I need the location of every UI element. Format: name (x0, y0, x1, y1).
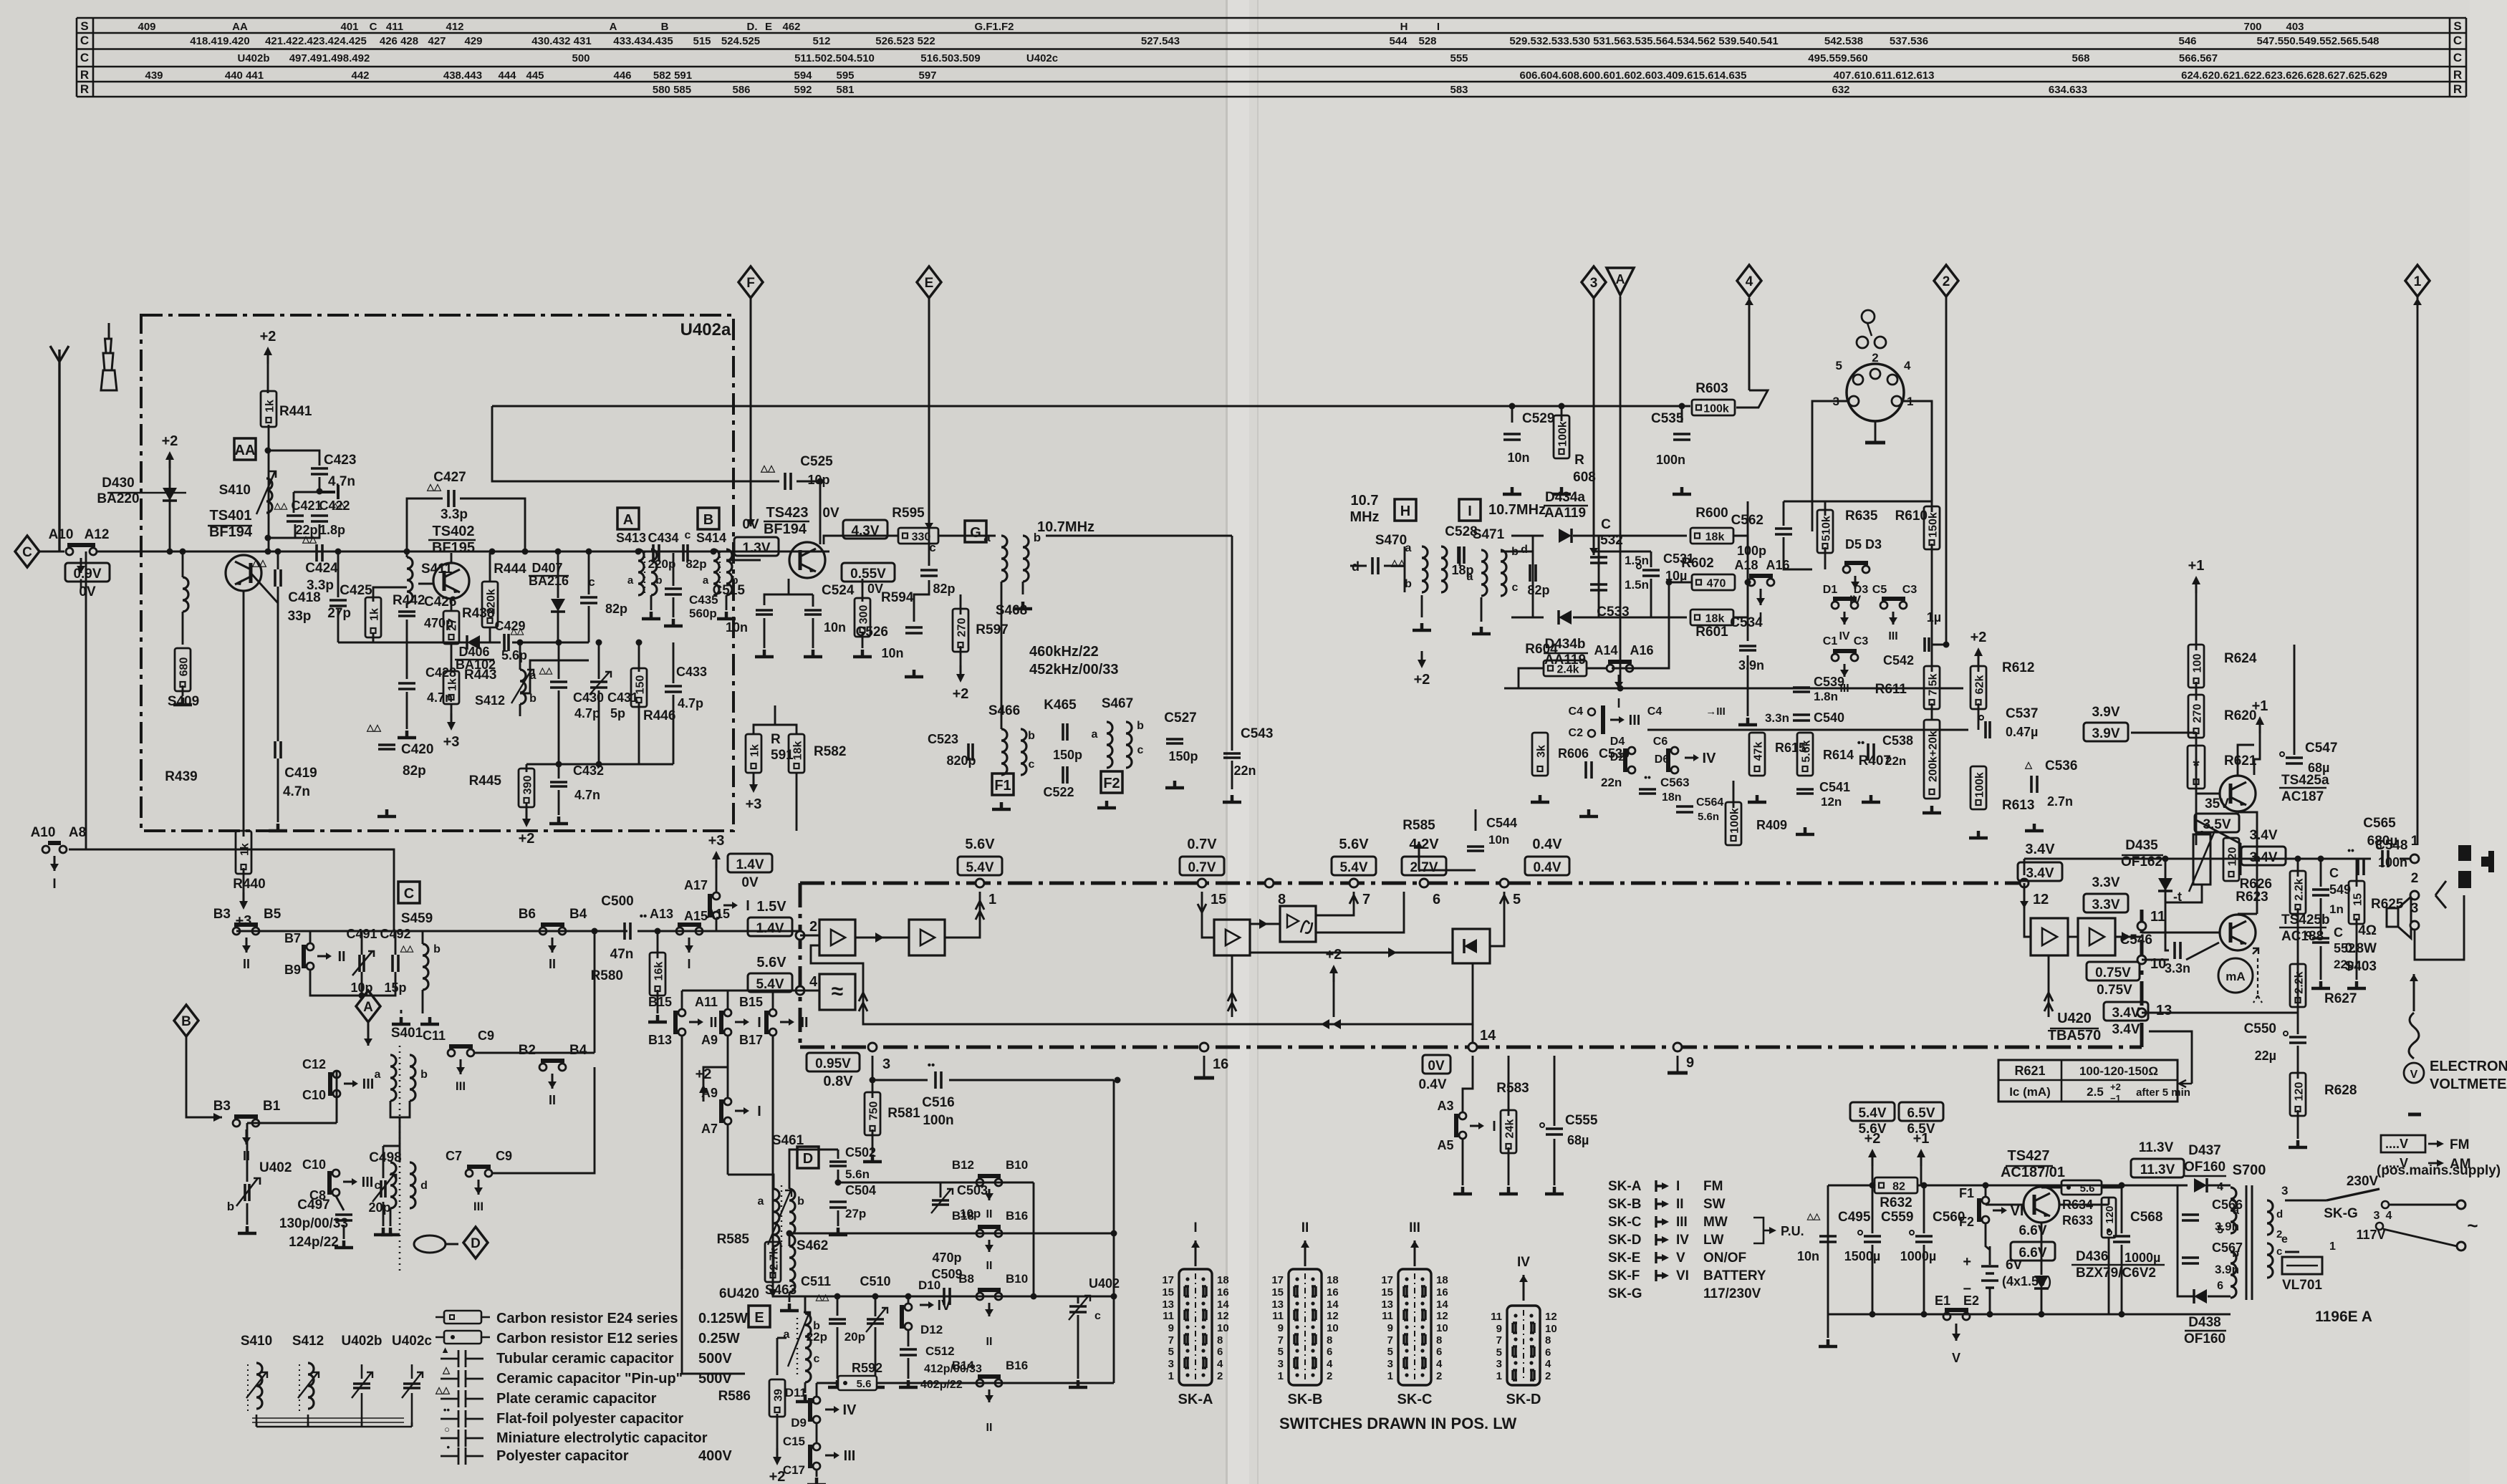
resistor R580 16k boxed (650, 953, 665, 996)
svg-text:14: 14 (1327, 1298, 1339, 1311)
contact D6/C6 (1671, 747, 1678, 754)
svg-text:524.525: 524.525 (721, 35, 760, 47)
wire R602 to R604 row (1612, 582, 1692, 668)
svg-text:R583: R583 (1496, 1081, 1529, 1096)
svg-text:3.3n: 3.3n (2165, 961, 2190, 975)
svg-text:4: 4 (2217, 1181, 2223, 1193)
svg-text:II: II (986, 1260, 993, 1272)
svg-text:R614: R614 (1823, 748, 1854, 762)
svg-text:c: c (1512, 582, 1519, 594)
IC pin 15 (1198, 879, 1206, 887)
svg-text:16: 16 (1436, 1286, 1448, 1298)
svg-text:C538: C538 (1882, 733, 1913, 748)
svg-text:560p: 560p (689, 607, 717, 620)
wire TS401 base to divider (251, 573, 278, 603)
SK-G mains switch (2285, 1200, 2326, 1202)
svg-text:C9: C9 (496, 1149, 512, 1163)
diode D434b AA119 (1559, 610, 1572, 625)
capacitor C428 4.7n (398, 683, 415, 689)
resistor R603 100k boxed (1692, 400, 1735, 415)
svg-text:G.F1.F2: G.F1.F2 (974, 21, 1014, 33)
svg-text:VL701: VL701 (2282, 1278, 2322, 1293)
svg-text:544: 544 (1389, 35, 1408, 47)
wire R625 top (2356, 859, 2358, 887)
svg-text:439: 439 (145, 69, 163, 82)
contact A10/A8 lower (59, 846, 67, 853)
svg-text:C3: C3 (1854, 635, 1869, 647)
ground S414 (717, 612, 736, 619)
svg-text:624.620.621.622.623.626.628.62: 624.620.621.622.623.626.628.627.625.629 (2181, 69, 2387, 82)
svg-text:A18: A18 (1734, 558, 1758, 572)
svg-text:S462: S462 (797, 1238, 828, 1253)
svg-text:C504: C504 (845, 1183, 876, 1198)
svg-text:24k: 24k (1504, 1119, 1516, 1139)
telescopic antenna symbol (101, 323, 117, 390)
capacitor C565 680u (2382, 850, 2388, 867)
switch block SK-B (1289, 1269, 1322, 1385)
marker diamond 1 (2405, 265, 2430, 297)
svg-text:S: S (2453, 19, 2461, 33)
svg-text:C: C (80, 51, 89, 64)
svg-text:6: 6 (1433, 892, 1440, 907)
ground C504 (829, 1228, 847, 1235)
svg-text:B15: B15 (739, 995, 763, 1009)
svg-text:c: c (1029, 758, 1035, 771)
contact D10/D12 (905, 1304, 912, 1311)
svg-text:586: 586 (732, 84, 750, 96)
svg-text:D406: D406 (458, 645, 489, 659)
svg-text:632: 632 (1832, 84, 1849, 96)
svg-text:D438: D438 (2188, 1315, 2220, 1330)
svg-text:SK-C: SK-C (1397, 1392, 1433, 1407)
capacitor C535 100n (1673, 434, 1690, 440)
capacitor C429 5.6p (480, 642, 501, 644)
wire R612 top (1978, 653, 1980, 672)
transistor TS402 BF195 (433, 563, 469, 599)
wire line y=961 discriminator (1504, 688, 1963, 690)
svg-text:II: II (986, 1208, 993, 1220)
IF transformer S468 (G) (965, 521, 986, 542)
svg-text:C12: C12 (302, 1057, 326, 1071)
svg-text:82p: 82p (685, 557, 706, 571)
svg-text:1196E A: 1196E A (2315, 1309, 2372, 1325)
resistor R628 120 boxed (2290, 1073, 2306, 1116)
svg-text:C495: C495 (1838, 1210, 1871, 1225)
svg-text:4.7n: 4.7n (328, 474, 355, 489)
svg-text:C537: C537 (2006, 706, 2038, 721)
svg-text:9: 9 (1496, 1323, 1502, 1335)
svg-text:1k: 1k (447, 678, 459, 691)
capacitor C431 5p variable (590, 682, 607, 688)
svg-text:+2: +2 (1326, 947, 1342, 963)
svg-text:0.55V: 0.55V (850, 567, 886, 582)
svg-text:7: 7 (1362, 892, 1370, 907)
svg-text:0.4V: 0.4V (1418, 1077, 1446, 1092)
capacitor C525 10p (785, 473, 791, 490)
svg-text:A10: A10 (31, 825, 56, 840)
svg-text:C547: C547 (2305, 741, 2337, 756)
svg-text:R581: R581 (887, 1106, 920, 1121)
svg-text:0V: 0V (79, 584, 96, 599)
IC pin 11 (2137, 922, 2146, 930)
svg-text:11: 11 (1272, 1310, 1284, 1322)
IC pin 14 (1468, 1043, 1477, 1051)
svg-text:11: 11 (2150, 909, 2165, 925)
capacitor 82p at S471 (1530, 564, 1536, 582)
svg-text:542.538: 542.538 (1824, 35, 1863, 47)
wire R623 top (2196, 820, 2241, 875)
svg-text:330: 330 (912, 531, 931, 544)
svg-text:100k: 100k (1974, 772, 1986, 798)
svg-text:3.3V: 3.3V (2092, 875, 2119, 890)
svg-text:47k: 47k (1753, 742, 1765, 761)
svg-text:U420: U420 (2057, 1011, 2092, 1026)
wire S468 to S466 (1001, 582, 1003, 729)
resistors R615 47k / R614 5.6k (1749, 733, 1765, 776)
wire TS402 collector (451, 553, 453, 563)
wire D434b to R601 (1573, 617, 1687, 619)
svg-text:495.559.560: 495.559.560 (1808, 52, 1867, 64)
svg-text:8: 8 (1327, 1334, 1332, 1346)
svg-text:100-120-150Ω: 100-120-150Ω (2079, 1064, 2158, 1078)
svg-text:IV: IV (1517, 1255, 1530, 1270)
wire B4 junction up to AM line (594, 931, 596, 1053)
wire AGC to pin14 (1472, 1024, 1474, 1043)
svg-text:22n: 22n (1885, 754, 1906, 768)
svg-text:K465: K465 (1044, 698, 1077, 713)
svg-text:597: 597 (918, 69, 936, 82)
capacitor K465 150p (1063, 723, 1067, 741)
svg-text:FM: FM (1703, 1179, 1723, 1194)
svg-text:A11: A11 (695, 995, 718, 1009)
svg-text:OF160: OF160 (2184, 1160, 2225, 1175)
svg-text:3: 3 (1278, 1358, 1284, 1370)
svg-text:△△: △△ (815, 1292, 829, 1302)
svg-text:120: 120 (2227, 847, 2239, 867)
capacitor C8 plate (335, 1215, 352, 1220)
svg-text:R612: R612 (2002, 660, 2034, 675)
svg-text:150p: 150p (1053, 748, 1082, 762)
speaker symbol (2387, 908, 2398, 927)
svg-text:II: II (549, 957, 556, 971)
svg-text:I: I (757, 1015, 761, 1031)
svg-text:b: b (433, 943, 441, 955)
svg-text:R439: R439 (165, 769, 197, 784)
svg-text:100: 100 (2192, 654, 2204, 673)
capacitor C511 22p (829, 1319, 846, 1324)
resistor R612 62k boxed (1971, 666, 1986, 709)
wire corner x=687 to F line (492, 406, 751, 481)
svg-text:S410: S410 (241, 1334, 272, 1349)
svg-text:C563: C563 (1660, 776, 1690, 789)
wire S461 b to C502 (789, 1150, 838, 1189)
svg-text:S470: S470 (1375, 533, 1407, 548)
svg-text:d: d (2276, 1208, 2283, 1220)
svg-text:+3: +3 (708, 833, 725, 849)
wire line y=1722 B18/B16 (789, 1233, 1114, 1235)
contact D1/D3 (1832, 602, 1839, 609)
svg-text:8: 8 (1545, 1334, 1551, 1346)
wire C418 to C419 (277, 587, 279, 741)
wire pin13 row (2142, 1012, 2298, 1014)
svg-text:411: 411 (386, 21, 403, 33)
svg-text:634.633: 634.633 (2049, 84, 2087, 96)
marker diamond 2 (1934, 265, 1958, 297)
svg-text:••: •• (443, 1404, 451, 1415)
svg-text:b: b (1137, 720, 1144, 732)
svg-text:82p: 82p (1527, 583, 1549, 597)
svg-text:820p: 820p (946, 753, 976, 768)
svg-text:429: 429 (464, 35, 482, 47)
svg-text:after 5 min: after 5 min (2136, 1086, 2190, 1099)
svg-text:+3: +3 (746, 796, 762, 812)
resistor R407 volume pot 200k+20k (1924, 720, 1940, 799)
svg-text:R440: R440 (233, 877, 265, 892)
svg-text:ON/OF: ON/OF (1703, 1251, 1746, 1266)
svg-text:5: 5 (1387, 1346, 1393, 1358)
svg-text:5.6n: 5.6n (1698, 811, 1719, 823)
svg-text:C512: C512 (925, 1344, 955, 1358)
limiter block with wave symbol (819, 974, 855, 1010)
wire B13 long vertical (682, 1036, 745, 1374)
wire rail to TS425b collector (2256, 859, 2258, 914)
svg-text:II: II (800, 1015, 808, 1031)
svg-text:→III: →III (1705, 705, 1726, 718)
svg-text:C543: C543 (1241, 726, 1273, 741)
marker diamond 4 (1737, 265, 1761, 297)
svg-text:117V: 117V (2356, 1228, 2385, 1242)
svg-text:452kHz/00/33: 452kHz/00/33 (1029, 662, 1119, 678)
svg-text:BF195: BF195 (432, 540, 475, 556)
svg-text:1.8p: 1.8p (319, 523, 345, 537)
svg-text:3.4V: 3.4V (2249, 828, 2277, 843)
audio line to jack (2165, 858, 2371, 860)
amplifier block 1 (819, 920, 855, 955)
capacitor C560 1000u (1915, 1236, 1933, 1242)
IC pin 7 (1349, 879, 1358, 887)
svg-text:△: △ (2024, 759, 2033, 770)
svg-text:+2: +2 (953, 686, 969, 702)
svg-text:TS425a: TS425a (2281, 773, 2329, 788)
resistors R600 R601 18k boxed (1690, 528, 1733, 544)
svg-text:5: 5 (1168, 1346, 1174, 1358)
contact B18/B16 (976, 1230, 983, 1237)
svg-text:460kHz/22: 460kHz/22 (1029, 644, 1099, 660)
svg-text:16k: 16k (653, 962, 665, 981)
svg-text:18k: 18k (1705, 531, 1725, 544)
wire DIN left to C562/R635 (1812, 401, 1849, 501)
svg-text:c: c (1137, 744, 1144, 756)
svg-text:150: 150 (635, 675, 647, 695)
svg-text:C564: C564 (1696, 796, 1723, 809)
resistor R438 27 boxed (443, 611, 459, 644)
svg-text:AA: AA (235, 443, 256, 458)
svg-text:a: a (2233, 1205, 2239, 1217)
IC right amp blocks (2031, 918, 2068, 955)
svg-text:R586: R586 (718, 1389, 751, 1404)
svg-text:MW: MW (1703, 1215, 1728, 1230)
wire lower rail y=897 (338, 642, 468, 644)
svg-text:5.4V: 5.4V (1339, 860, 1367, 875)
svg-text:△△: △△ (1806, 1211, 1821, 1221)
svg-text:680: 680 (178, 657, 191, 677)
svg-text:R445: R445 (469, 774, 502, 789)
svg-text:SK-D: SK-D (1608, 1233, 1641, 1248)
svg-text:II: II (986, 1336, 993, 1348)
svg-text:581: 581 (836, 84, 854, 96)
P.U. bracket (1753, 1218, 1763, 1243)
svg-text:C10: C10 (302, 1157, 326, 1172)
svg-text:124p/22: 124p/22 (289, 1235, 339, 1250)
svg-text:R446: R446 (643, 708, 675, 723)
contact A9/A7 lower (727, 1036, 729, 1098)
ground C543 region (1231, 761, 1233, 789)
svg-text:D11: D11 (785, 1386, 807, 1399)
svg-text:R632: R632 (1880, 1195, 1912, 1210)
resistor R613 100k boxed (1971, 766, 1986, 809)
wire pin4 to limiter (800, 990, 819, 992)
svg-text:3.4V: 3.4V (2026, 866, 2054, 881)
svg-text:418.419.420: 418.419.420 (190, 35, 249, 47)
detector block (1453, 929, 1490, 963)
svg-text:527.543: 527.543 (1141, 35, 1180, 47)
contact C15/C17 (813, 1443, 820, 1450)
IC pin 2 (796, 931, 804, 940)
capacitor C430 4.7p (550, 682, 567, 688)
resistor R606 3k / capacitor C530 22n (1532, 733, 1548, 776)
IC pin 10 (2137, 955, 2146, 964)
svg-text:12: 12 (2033, 892, 2049, 907)
svg-text:Ic (mA): Ic (mA) (2009, 1085, 2051, 1099)
diode D434a AA119 (1559, 529, 1572, 543)
svg-text:583: 583 (1450, 84, 1468, 96)
capacitor C522 (1063, 766, 1067, 784)
svg-text:a: a (703, 574, 709, 587)
svg-text:C7: C7 (446, 1149, 462, 1163)
wire amp1 to amp2 with arrow (855, 937, 909, 939)
marker diamond 3 (1582, 266, 1606, 298)
svg-text:5.4V: 5.4V (1858, 1106, 1886, 1121)
svg-text:C523: C523 (928, 732, 958, 746)
ground C428 (398, 731, 416, 738)
svg-text:150p: 150p (1168, 749, 1198, 763)
supply +2 at R612 (1978, 653, 1980, 665)
svg-text:b: b (1405, 578, 1412, 590)
svg-text:BF194: BF194 (764, 521, 807, 537)
pin9 ground (1677, 1056, 1679, 1073)
wire B to B3/B1 (186, 1036, 222, 1117)
svg-text:580 585: 580 585 (653, 84, 691, 96)
svg-text:4Ω: 4Ω (2358, 923, 2377, 938)
capacitor C527 150p (1166, 739, 1183, 743)
coil S412 variable (520, 670, 526, 704)
contact D5/D3 (1843, 566, 1850, 573)
ground C420 (377, 809, 396, 816)
svg-text:17: 17 (1162, 1274, 1174, 1286)
svg-text:5: 5 (2217, 1224, 2223, 1236)
svg-text:4: 4 (1436, 1358, 1443, 1370)
wire C525 to TS423 collector (797, 481, 820, 544)
svg-text:S412: S412 (292, 1334, 324, 1349)
svg-text:b: b (2232, 1248, 2239, 1260)
svg-text:10.7MHz: 10.7MHz (1037, 519, 1094, 535)
svg-text:10n: 10n (726, 620, 748, 635)
wire TS425b base to pin11 (2142, 932, 2219, 934)
svg-text:△△: △△ (400, 943, 414, 953)
capacitor C536 2.7n (2031, 776, 2037, 793)
svg-text:6V: 6V (2006, 1258, 2023, 1273)
ground C17 (807, 1478, 826, 1484)
svg-text:III: III (844, 1448, 856, 1464)
svg-text:2.2k: 2.2k (2294, 878, 2306, 900)
transistor TS425b AC188 (2220, 915, 2256, 950)
svg-text:582 591: 582 591 (653, 69, 692, 82)
contacts B15/B13 A11/A9 B15/B17 (678, 1009, 685, 1016)
contact A13/A15 (676, 927, 683, 935)
wire E down to IF line (928, 298, 930, 530)
svg-text:V: V (1952, 1351, 1960, 1365)
svg-text:B3: B3 (213, 1099, 231, 1114)
svg-text:0.8W: 0.8W (2345, 941, 2377, 956)
svg-text:F1: F1 (1959, 1186, 1974, 1200)
wire C418 top (277, 551, 279, 569)
transistor TS425a AC187 (2220, 776, 2256, 811)
svg-text:△△: △△ (760, 463, 776, 473)
svg-text:R: R (80, 68, 89, 82)
svg-text:B3: B3 (213, 907, 231, 922)
svg-text:I: I (1617, 696, 1620, 710)
svg-text:100n: 100n (1656, 453, 1685, 467)
main FM signal wire y=770 (97, 551, 829, 553)
resistor R445 390 boxed (519, 768, 534, 807)
svg-text:B15: B15 (648, 995, 672, 1009)
svg-text:C515: C515 (713, 583, 746, 598)
IC bottom bus dash-dot (800, 1046, 2142, 1049)
svg-text:5.6k: 5.6k (1801, 740, 1813, 762)
svg-text:Miniature electrolytic capacit: Miniature electrolytic capacitor (496, 1430, 708, 1446)
svg-text:I: I (1676, 1179, 1680, 1194)
svg-text:B13: B13 (648, 1033, 672, 1047)
svg-text:1.3V: 1.3V (742, 541, 770, 556)
svg-text:C: C (22, 545, 32, 560)
svg-text:446: 446 (613, 69, 631, 82)
svg-text:35V: 35V (2205, 796, 2229, 811)
wire B3/B1 to C12 (336, 1071, 338, 1123)
svg-text:D3: D3 (1854, 584, 1869, 596)
coil S410 variable (266, 478, 272, 513)
svg-text:C535: C535 (1651, 411, 1684, 426)
coil S459 (423, 944, 428, 990)
svg-text:S700: S700 (2233, 1162, 2266, 1178)
svg-text:7.5k: 7.5k (1928, 673, 1940, 695)
contact A10/A12 (66, 548, 73, 555)
svg-text:402p/22: 402p/22 (920, 1379, 963, 1391)
svg-text:IV: IV (1676, 1233, 1689, 1248)
ground S462 (780, 1304, 799, 1311)
svg-text:SK-E: SK-E (1608, 1251, 1640, 1266)
switch block SK-A (1179, 1269, 1212, 1385)
svg-text:15: 15 (2352, 893, 2364, 906)
contact B8/B10 (976, 1293, 983, 1300)
wire TS427 base (1986, 1204, 2023, 1206)
contact D11/D9 (816, 1383, 818, 1397)
supply arrow +2 at D430 (169, 457, 171, 468)
svg-text:B12: B12 (952, 1158, 974, 1172)
marker triangle A antenna (1607, 268, 1634, 295)
svg-text:C11: C11 (423, 1028, 446, 1043)
IC U420 TBA570 top bus dash-dot (800, 882, 2024, 885)
wire DIN to R610 (1931, 401, 1933, 512)
